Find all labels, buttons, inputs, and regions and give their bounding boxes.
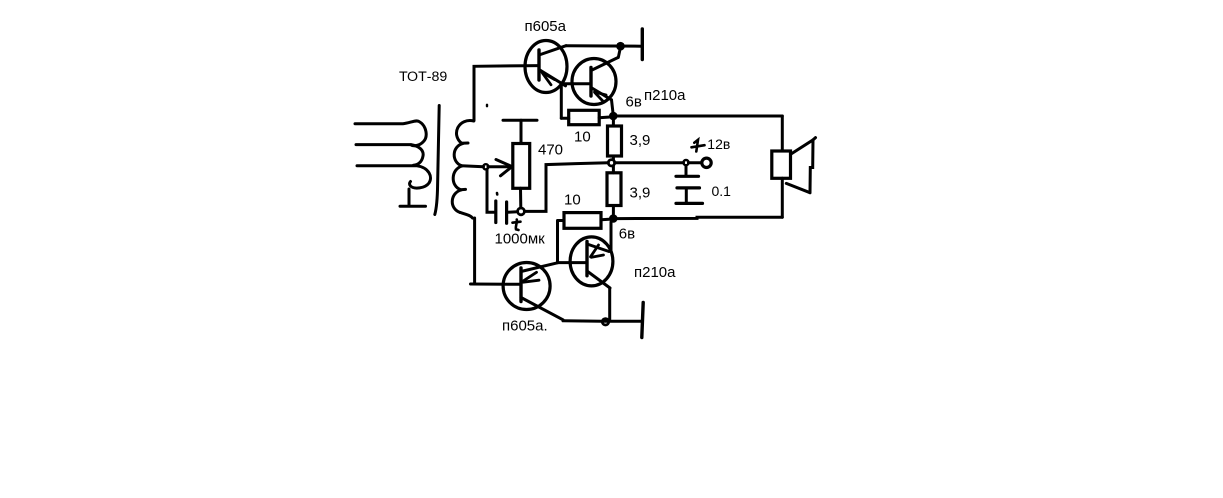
potentiometer R1 470 body — [513, 144, 530, 189]
resistor R4 3,9 (bottom) — [607, 166, 621, 214]
stray dot mark upper — [486, 105, 488, 106]
label п210а bottom — [634, 264, 676, 281]
supply polarity mark + — [692, 140, 705, 152]
wire pot node to center node — [525, 163, 609, 212]
speaker LS1 horn — [786, 138, 815, 193]
label 3,9 top — [630, 132, 651, 149]
wire VT1 emitter to VT2 base corner down to R2 — [560, 84, 563, 119]
label п210а top — [644, 87, 686, 104]
wire VT3 collector to bottom terminal — [563, 319, 641, 323]
label 10 bottom — [564, 191, 581, 208]
svg-text:п605а: п605а — [525, 18, 567, 35]
svg-text:ТОТ-89: ТОТ-89 — [399, 69, 447, 85]
label 0.1 — [712, 183, 732, 199]
transistor VT4 emitter — [587, 244, 609, 252]
wire center node to C2 node — [615, 161, 684, 164]
transistor VT4 п210а (bottom) circle — [570, 237, 613, 286]
transistor VT2 emitter — [591, 88, 613, 114]
wire speaker bottom lead — [781, 178, 784, 217]
wire VT4 collector down to bottom node — [608, 288, 611, 320]
label 3,9 bottom — [630, 185, 651, 202]
wire secondary top lead to VT1 base — [474, 66, 539, 121]
transistor VT1 emitter arrow — [542, 72, 555, 85]
svg-text:6в: 6в — [626, 94, 642, 111]
label 1000мк — [495, 230, 546, 247]
transistor VT2 emitter arrow — [595, 92, 607, 101]
polarity mark + of C1 — [513, 220, 521, 231]
transistor VT1 base bar — [537, 50, 540, 80]
wire speaker top lead — [781, 116, 784, 151]
svg-text:1000мк: 1000мк — [495, 230, 546, 247]
label 6в top — [626, 94, 642, 111]
resistor R5 10 (bottom) — [558, 213, 609, 229]
wire collector rail to supply terminal — [566, 44, 642, 48]
node pot bottom (open circle) — [518, 208, 525, 215]
transistor VT2 collector — [591, 58, 618, 71]
svg-text:0.1: 0.1 — [712, 183, 732, 199]
transistor VT1 п605а (top) circle — [525, 41, 567, 93]
svg-text:12в: 12в — [707, 136, 730, 152]
potentiometer R1 wiper arrow — [496, 160, 512, 176]
transformer T1 secondary winding — [452, 121, 474, 218]
wire bottom rail to speaker — [617, 217, 782, 218]
transformer T1 core — [435, 106, 439, 215]
stray dot mark — [496, 193, 499, 195]
svg-text:3,9: 3,9 — [630, 132, 651, 149]
resistor R3 3,9 (top) — [608, 120, 622, 160]
wire R5 left lead down to VT4 base — [556, 221, 559, 263]
speaker LS1 box — [772, 151, 791, 178]
wire pot bottom lead — [519, 188, 522, 208]
node center (open circle) — [608, 160, 614, 166]
label 10 top — [574, 129, 591, 146]
capacitor C1 1000мк — [487, 169, 517, 223]
transistor VT4 collector — [587, 271, 610, 288]
svg-text:п210а: п210а — [634, 264, 676, 281]
junction dot top rail — [616, 42, 625, 51]
node 6в top junction dot — [609, 112, 618, 121]
svg-text:6в: 6в — [619, 225, 635, 242]
svg-text:10: 10 — [574, 129, 591, 146]
transistor VT3 п605а (bottom) circle — [503, 263, 550, 310]
label 6в bottom — [619, 225, 635, 242]
supply connector ring — [702, 158, 711, 167]
transistor VT2 п210а (top) circle — [572, 59, 616, 105]
transistor VT1 emitter — [539, 70, 566, 86]
label 12в — [707, 136, 730, 152]
node C2 top (small open circle) — [683, 160, 688, 165]
node wiper tap (open circle) — [483, 164, 488, 169]
capacitor C2 0.1 — [676, 166, 703, 204]
transistor VT2 base wire — [561, 82, 591, 85]
terminal bar bottom — [642, 303, 643, 338]
transistor VT1 collector — [539, 46, 566, 55]
svg-text:10: 10 — [564, 191, 581, 208]
wire secondary bottom lead to VT3 base — [471, 218, 522, 284]
transistor VT4 emitter arrow — [591, 245, 604, 257]
transformer T1 primary winding — [355, 121, 431, 188]
node 6в bottom junction dot — [609, 214, 618, 223]
svg-text:п605а.: п605а. — [502, 318, 548, 335]
svg-text:470: 470 — [538, 141, 563, 158]
transistor VT4 base bar — [585, 242, 588, 276]
transistor VT3 emitter arrow — [522, 272, 539, 282]
potentiometer R1 wiper wire from secondary tap — [462, 166, 513, 167]
wire 6в node down to VT4 emitter — [610, 222, 613, 252]
wire top rail to speaker — [617, 115, 782, 118]
svg-text:3,9: 3,9 — [630, 185, 651, 202]
ground — [400, 189, 426, 206]
wire node to supply ring — [689, 161, 702, 164]
terminal bar top right — [641, 29, 644, 60]
svg-text:п210а: п210а — [644, 87, 686, 104]
label 470 — [538, 141, 563, 158]
node bottom (open circle) — [602, 319, 608, 325]
label п605а top — [525, 18, 567, 35]
wire junction to VT2 collector — [618, 48, 620, 58]
resistor R2 10 (top) — [561, 110, 610, 124]
transistor VT4 base wire — [558, 261, 588, 264]
transistor VT3 collector — [521, 298, 563, 320]
transformer T1 label ТОТ-89 — [399, 69, 447, 85]
label п605а bottom — [502, 318, 548, 335]
transistor VT3 base bar — [519, 268, 522, 302]
transistor VT3 emitter — [521, 263, 558, 272]
potentiometer R1 470 top terminal — [503, 120, 537, 143]
transistor VT2 base bar — [589, 68, 592, 97]
